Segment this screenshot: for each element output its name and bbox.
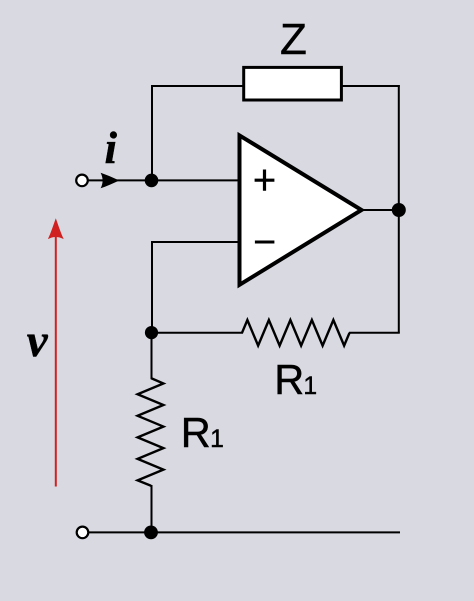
svg-text:i: i <box>105 123 118 173</box>
wire right vertical from Z to output node <box>398 85 400 211</box>
impedance Z (box) <box>244 67 342 100</box>
wire node B down to grounding R1 <box>151 333 153 380</box>
wire grounding R1 to bottom rail <box>151 485 153 532</box>
wire bottom rail <box>87 531 400 533</box>
resistor R1 (grounding, vertical zigzag) <box>138 378 164 486</box>
svg-text:R: R <box>181 409 211 456</box>
wire input terminal to op-amp + input <box>87 179 240 181</box>
wire op-amp - input vertical down to node B <box>151 241 153 333</box>
op-amp U1 <box>240 135 362 284</box>
op-amp - input marking <box>255 241 275 244</box>
svg-text:R: R <box>274 356 304 403</box>
input terminal (open circle) <box>76 175 88 187</box>
svg-text:1: 1 <box>210 426 224 453</box>
wire top horizontal left of Z <box>151 85 245 87</box>
wire feedback R1 right lead <box>349 332 400 334</box>
wire vertical input node up to Z <box>151 85 153 180</box>
svg-text:Z: Z <box>280 15 307 64</box>
resistor R1 (feedback, horizontal zigzag) <box>242 320 350 346</box>
bottom terminal (open circle) <box>77 527 89 539</box>
wire top horizontal right of Z <box>341 85 400 87</box>
svg-text:v: v <box>27 315 49 367</box>
svg-text:1: 1 <box>303 373 317 400</box>
op-amp + input marking <box>255 170 275 191</box>
voltage arrow v (red) <box>55 236 57 487</box>
wire node B to feedback R1 left lead <box>151 332 243 334</box>
current arrow i <box>101 173 120 189</box>
wire op-amp output to node <box>362 209 400 211</box>
node input junction <box>145 174 159 188</box>
wire op-amp - input horizontal <box>152 241 240 243</box>
node output junction <box>392 203 406 217</box>
node B junction <box>145 326 158 339</box>
node bottom junction <box>144 526 158 540</box>
wire right vertical output node down to feedback R1 <box>398 210 400 333</box>
